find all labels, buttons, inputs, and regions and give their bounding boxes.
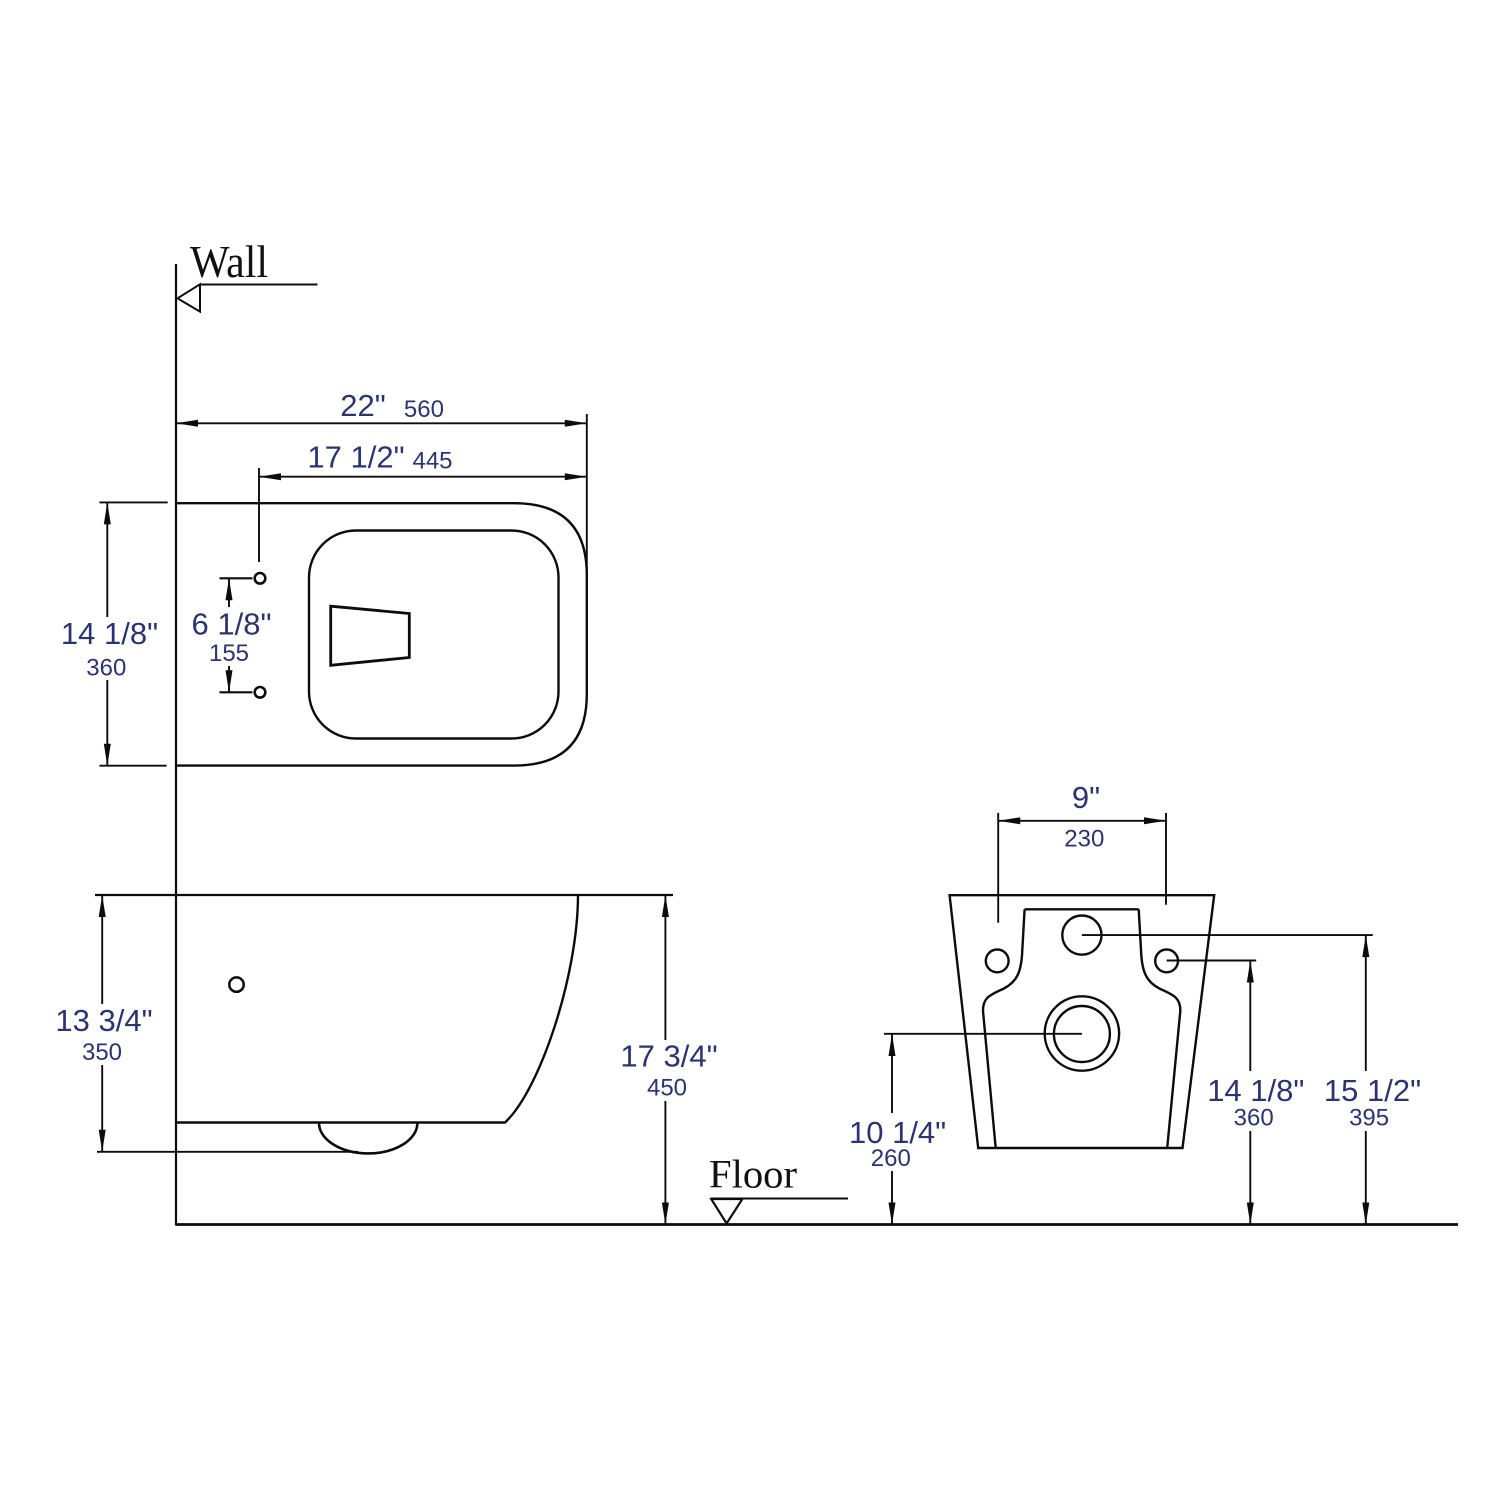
svg-text:560: 560 (404, 396, 444, 423)
svg-text:230: 230 (1064, 826, 1104, 853)
svg-text:Wall: Wall (190, 237, 268, 287)
svg-text:395: 395 (1349, 1105, 1389, 1132)
svg-text:450: 450 (647, 1075, 687, 1102)
svg-text:Floor: Floor (709, 1152, 797, 1197)
svg-text:360: 360 (86, 655, 126, 682)
svg-text:9": 9" (1072, 780, 1100, 815)
svg-text:17 1/2": 17 1/2" (307, 440, 404, 475)
svg-text:15 1/2": 15 1/2" (1324, 1073, 1421, 1108)
svg-text:17 3/4": 17 3/4" (620, 1039, 717, 1074)
svg-text:14 1/8": 14 1/8" (61, 616, 158, 651)
svg-text:260: 260 (871, 1145, 911, 1172)
svg-text:360: 360 (1234, 1105, 1274, 1132)
svg-text:350: 350 (82, 1039, 122, 1066)
svg-text:445: 445 (412, 448, 452, 475)
svg-text:155: 155 (209, 640, 249, 667)
svg-text:13 3/4": 13 3/4" (55, 1003, 152, 1038)
svg-text:14 1/8": 14 1/8" (1207, 1073, 1304, 1108)
svg-text:22": 22" (340, 388, 386, 423)
svg-text:6 1/8": 6 1/8" (192, 607, 272, 642)
